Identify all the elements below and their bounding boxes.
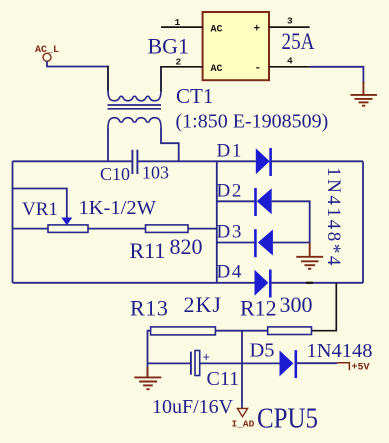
resistor R12 body	[268, 327, 312, 335]
svg-text:+5V: +5V	[352, 363, 370, 374]
wire transformer primary right to bridge pin 2	[160, 66, 162, 92]
diode D3	[255, 229, 273, 257]
svg-text:R12: R12	[240, 296, 277, 321]
wire between R13 and R12	[215, 330, 267, 332]
svg-text:1N4148*4: 1N4148*4	[323, 167, 344, 268]
svg-text:25A: 25A	[282, 29, 315, 54]
port I_AD arrow	[237, 408, 247, 416]
svg-text:4: 4	[287, 56, 293, 67]
bridge pin 4	[269, 66, 310, 68]
svg-text:1N4148: 1N4148	[307, 340, 373, 362]
svg-text:I_AD: I_AD	[232, 419, 255, 430]
transformer CT1 secondary winding	[108, 118, 161, 129]
svg-text:AC_L: AC_L	[35, 45, 59, 56]
svg-text:-: -	[255, 63, 262, 75]
svg-text:CPU5: CPU5	[257, 404, 318, 435]
vertical bus wire	[216, 161, 218, 282]
VR1 wiper arrow	[61, 218, 72, 226]
wire secondary right down and over to C10 row	[161, 128, 179, 161]
diode D1	[256, 148, 271, 176]
svg-text:3: 3	[287, 16, 293, 27]
ground (bottom left)	[134, 367, 161, 389]
svg-text:1: 1	[175, 17, 181, 28]
wire to C11 left plate	[148, 362, 191, 364]
ground (middle, diodes D2 D3)	[296, 243, 323, 269]
wire D1 to right bus	[272, 160, 364, 162]
vertical wire R13/R12 junction down to I_AD	[241, 331, 243, 409]
diode D2	[256, 188, 272, 216]
wire C11 to bus junction	[200, 362, 242, 364]
svg-text:CT1: CT1	[176, 84, 213, 108]
svg-text:AC: AC	[211, 64, 223, 75]
resistor R11 body	[146, 225, 189, 233]
ground (top right)	[351, 82, 378, 106]
wire bus to D2	[217, 200, 255, 202]
svg-text:D4: D4	[217, 262, 243, 283]
svg-text:(1:850 E-1908509): (1:850 E-1908509)	[176, 111, 329, 133]
junction dash on D4 wire	[306, 282, 313, 284]
svg-text:D1: D1	[217, 141, 243, 162]
wire D5 cathode to +5V	[297, 362, 337, 364]
capacitor C11 (polarized)	[191, 350, 210, 376]
diode D5	[280, 350, 296, 378]
svg-text:R13: R13	[130, 296, 168, 321]
wire VR1 wiper tap	[13, 189, 67, 219]
wire D4 to right bus	[271, 282, 363, 284]
capacitor C10	[132, 150, 137, 174]
transformer CT1 primary winding	[108, 90, 161, 101]
bridge rectifier BG1 body	[203, 12, 269, 80]
svg-text:AC: AC	[211, 25, 223, 36]
wire bus junction to D5	[242, 362, 280, 364]
svg-text:C10: C10	[100, 164, 130, 184]
resistor R13 body	[151, 327, 216, 335]
diode D4	[255, 270, 271, 298]
svg-text:2KJ: 2KJ	[184, 292, 222, 317]
svg-text:+: +	[203, 350, 210, 365]
transformer CT1 core lines	[108, 105, 162, 109]
svg-text:D5: D5	[250, 340, 275, 362]
port AC_L terminal circle	[43, 53, 51, 61]
wire R13 left and down to ground	[148, 331, 151, 377]
svg-text:D2: D2	[217, 181, 243, 202]
svg-text:103: 103	[142, 163, 169, 183]
wire left edge to VR1	[13, 228, 49, 230]
svg-text:820: 820	[170, 234, 203, 259]
svg-text:C11: C11	[207, 368, 240, 390]
wire bus to D3	[217, 242, 255, 244]
power port +5V	[337, 363, 370, 374]
wire VR1 to R11	[88, 228, 146, 230]
svg-text:10uF/16V: 10uF/16V	[152, 396, 234, 418]
svg-text:+: +	[254, 24, 261, 36]
right bus wire	[362, 161, 364, 282]
wire bottom edge (box bottom / D4 row)	[13, 282, 255, 284]
bridge pin 3	[269, 26, 310, 28]
wire pin4 to ground	[310, 67, 364, 84]
svg-text:BG1: BG1	[148, 34, 190, 59]
box left edge wire	[12, 161, 14, 282]
bridge pin 1	[161, 26, 203, 28]
svg-text:VR1: VR1	[22, 199, 58, 220]
wire secondary left down to C10 row	[107, 128, 109, 161]
wire D2 anode right and down	[272, 201, 310, 242]
wire top row left of C10	[13, 160, 133, 162]
potentiometer VR1 body	[48, 225, 88, 233]
svg-text:R11: R11	[130, 238, 166, 263]
wire from AC_L to transformer primary left	[47, 61, 108, 66]
svg-text:2: 2	[176, 57, 182, 68]
wire D3 anode to junction	[273, 242, 310, 244]
svg-text:D3: D3	[217, 222, 243, 243]
wire R11 to bus	[188, 228, 217, 230]
wire top row right of C10 to D1	[138, 160, 256, 162]
wire drop from D4 row to R12	[312, 283, 337, 331]
bridge pin 2	[161, 66, 203, 68]
svg-text:300: 300	[280, 292, 313, 317]
svg-text:1K-1/2W: 1K-1/2W	[79, 197, 157, 219]
